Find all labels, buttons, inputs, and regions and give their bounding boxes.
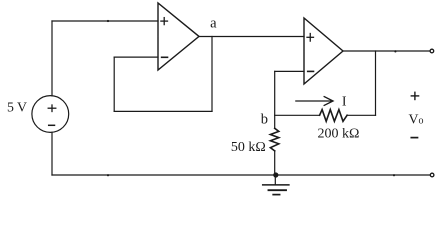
svg-text:200 kΩ: 200 kΩ (318, 127, 360, 142)
wire node b vertical upper (274, 71, 276, 128)
wire R1 bottom to ground rail (274, 151, 276, 175)
wire U2 feedback right vertical (375, 51, 377, 115)
terminal bottom open circle (430, 173, 434, 177)
svg-text:5 V: 5 V (7, 99, 27, 114)
wire node a: U1 output to U2 plus input (199, 36, 304, 38)
junction tick on bottom rail right (393, 174, 395, 176)
svg-text:b: b (261, 112, 268, 128)
junction tick on bottom rail left (107, 174, 109, 176)
wire U1 feedback bottom horizontal (114, 110, 212, 112)
ground symbol (263, 175, 289, 195)
terminal top open circle (430, 49, 434, 53)
wire bottom rail (52, 174, 430, 176)
svg-text:50 kΩ: 50 kΩ (231, 140, 266, 155)
node junction tick on top wire (107, 20, 109, 22)
wire node b to R2 (275, 114, 320, 116)
wire U1 feedback right vertical to output (211, 37, 213, 112)
voltage source V1 5V (32, 96, 69, 133)
wire U1 minus input (114, 56, 158, 58)
resistor R2 200k zigzag (320, 110, 348, 122)
wire U2 output (343, 50, 430, 52)
op-amp U2 (304, 18, 343, 84)
wire U2 minus input (275, 70, 304, 72)
svg-text:I: I (342, 94, 347, 109)
op-amp U1 (158, 3, 199, 70)
resistor R1 50k zigzag vertical (270, 128, 278, 151)
wire U1 feedback left vertical (113, 57, 115, 111)
junction dot ground node (273, 172, 278, 177)
label plus output (411, 95, 418, 97)
current arrow I (296, 97, 333, 106)
wire top from source to U1 plus input (52, 20, 158, 22)
label minus output (411, 137, 417, 139)
junction tick on output wire (394, 50, 396, 52)
wire left vertical source top (51, 21, 53, 96)
svg-text:a: a (210, 16, 217, 32)
wire left vertical source bottom (51, 132, 53, 175)
wire R2 right to feedback vertical (347, 114, 375, 116)
